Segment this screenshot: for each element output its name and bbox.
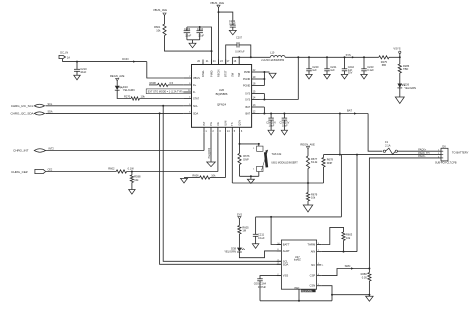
svg-text:2.1A: 2.1A: [385, 143, 391, 147]
wire thermistor bottom rail: [240, 175, 259, 177]
pin BATT gauge left: [277, 244, 282, 246]
svg-text:10uF: 10uF: [269, 125, 275, 128]
svg-text:YEL/GRN: YEL/GRN: [224, 250, 236, 254]
svg-text:10uF: 10uF: [198, 33, 204, 37]
svg-text:0.05: 0.05: [362, 275, 368, 279]
pin SYS right stub: [252, 93, 260, 95]
svg-text:SCL: SCL: [193, 105, 198, 108]
pin TS bottom stub: [231, 127, 233, 132]
net PG arrow: [210, 132, 212, 162]
pin DSEL top stub: [202, 60, 204, 65]
svg-text:TO BATTERY: TO BATTERY: [452, 151, 469, 155]
svg-text:0.1uF: 0.1uF: [367, 68, 374, 72]
svg-text:PMID: PMID: [244, 71, 250, 74]
svg-text:VSYS: VSYS: [393, 47, 400, 51]
pin CSN gauge right: [317, 285, 322, 287]
svg-text:SYS: SYS: [245, 99, 250, 102]
svg-text:QON: QON: [237, 120, 241, 126]
svg-text:CE: CE: [216, 122, 220, 126]
pin NC gauge right: [317, 264, 322, 266]
pin PMID top stub: [211, 60, 213, 65]
annotation box EXT OTG MODE: [146, 89, 191, 94]
wire PMID PGND tie: [260, 71, 265, 73]
pin SDA left stub: [183, 112, 191, 114]
resistor R280 sense: [368, 269, 370, 273]
wire AIN: [321, 251, 357, 253]
pin CE bottom stub: [217, 127, 219, 132]
wire CSN: [321, 286, 369, 295]
svg-text:J26: J26: [442, 144, 447, 148]
ground for C203 C204: [192, 40, 194, 43]
resistor R676 DNP: [239, 144, 241, 154]
wire CE pin drop: [217, 132, 219, 171]
pin PG bottom stub: [210, 127, 212, 132]
wire SW rail to inductor: [231, 57, 233, 59]
capacitor C164 on VSS: [260, 276, 281, 279]
pin ALRT gauge left: [277, 250, 282, 252]
node thermistor gnd junction: [250, 175, 252, 177]
wire VSS PAD rail: [260, 300, 332, 302]
fuse F1: [383, 150, 385, 152]
pin THRM gauge right: [317, 244, 322, 246]
jumper J602 bottom: [257, 166, 263, 171]
svg-text:DSEL: DSEL: [201, 70, 205, 77]
resistor R677: [307, 149, 309, 156]
ground for C211: [252, 244, 259, 249]
pin SYS right stub: [252, 99, 260, 101]
jumper J601 top: [258, 144, 260, 146]
node TS divider junction: [307, 182, 309, 184]
wire SYS rail: [285, 56, 379, 58]
svg-text:ALRT: ALRT: [283, 249, 290, 253]
svg-text:SDA: SDA: [283, 262, 289, 266]
svg-text:bq40Z: bq40Z: [294, 259, 301, 262]
ground for R598: [129, 190, 136, 195]
svg-text:VBUS_AVE: VBUS_AVE: [153, 8, 167, 12]
svg-text:PMID: PMID: [209, 70, 213, 77]
svg-text:1uF: 1uF: [312, 68, 317, 72]
node C204 junction: [199, 26, 201, 28]
svg-text:THRM: THRM: [307, 243, 316, 247]
pin QON bottom stub: [239, 127, 241, 132]
resistor R608 on D+: [149, 84, 158, 86]
svg-text:DCIN: DCIN: [122, 58, 128, 61]
pin REGN top stub: [218, 60, 220, 65]
svg-text:680: 680: [382, 63, 387, 67]
wire pack minus: [369, 158, 441, 269]
svg-text:INT: INT: [202, 121, 206, 126]
svg-text:10k: 10k: [134, 178, 139, 182]
resistor R270 STAT: [117, 90, 131, 98]
wire INT pin drop: [203, 132, 205, 150]
svg-text:BQ27Z561: BQ27Z561: [301, 291, 313, 293]
wire VBUS_AVE down to pin: [218, 7, 220, 64]
svg-text:BTST: BTST: [224, 70, 228, 77]
svg-text:R606: R606: [192, 173, 199, 177]
ground for R606: [181, 178, 188, 183]
svg-text:10uF: 10uF: [80, 70, 86, 74]
charger IC U26 body: [192, 65, 252, 128]
resistor R605: [238, 219, 240, 226]
svg-text:0.5: 0.5: [170, 81, 174, 85]
capacitor C210: [76, 62, 78, 70]
pin PGND right stub: [252, 85, 260, 87]
svg-text:10k: 10k: [156, 28, 161, 32]
svg-text:CHRG_I2C_SCL: CHRG_I2C_SCL: [11, 104, 34, 108]
wire SYS pins join: [260, 93, 265, 95]
capacitor C204: [199, 27, 201, 31]
ground arrow for R679: [303, 205, 313, 212]
svg-text:35V: 35V: [348, 71, 353, 75]
svg-text:C207: C207: [236, 36, 243, 39]
wire CSP to SRN: [321, 269, 369, 276]
pin CSP gauge right: [317, 275, 322, 277]
gauge part bar: [301, 290, 316, 293]
svg-text:BAT: BAT: [246, 113, 251, 116]
svg-text:STAT: STAT: [193, 98, 199, 101]
pin PGND right stub: [252, 78, 260, 80]
LED D10: [116, 81, 118, 86]
battery connector J26: [441, 148, 448, 161]
wire SCL: [46, 105, 184, 107]
LED D26: [399, 73, 401, 84]
wire INT: [46, 150, 205, 152]
ground for C202: [229, 30, 236, 34]
wire SCL to gauge: [163, 106, 281, 261]
svg-text:QFN24: QFN24: [217, 103, 226, 107]
pin BAT right stub: [252, 106, 260, 108]
wire SDA: [46, 112, 184, 114]
svg-text:AIN: AIN: [311, 250, 316, 254]
ground for thermistor: [250, 176, 252, 179]
capacitor C58: [270, 113, 272, 115]
svg-text:10k: 10k: [346, 236, 351, 240]
svg-text:PG(QON): PG(QON): [208, 148, 211, 159]
svg-text:CHRG_I2C_SDA: CHRG_I2C_SDA: [10, 112, 33, 116]
svg-text:SYS: SYS: [245, 93, 250, 96]
svg-text:C203: C203: [184, 27, 191, 31]
wire TS rail: [231, 132, 233, 183]
pin VBUS left stub: [183, 77, 191, 79]
wire pack-mid drop to BATT rail: [340, 155, 342, 217]
svg-text:U601 MODULE/INSERT: U601 MODULE/INSERT: [271, 161, 298, 164]
capacitor C211: [255, 217, 257, 234]
svg-text:CSP: CSP: [310, 274, 316, 278]
svg-text:1A: 1A: [67, 55, 70, 59]
wire BATT rail: [256, 216, 342, 218]
svg-text:SYS: SYS: [346, 53, 351, 57]
node CSN gnd junction: [368, 294, 370, 296]
wire R601 to REGN pin: [165, 36, 212, 52]
wire THRM to R603: [321, 227, 343, 244]
svg-text:D-: D-: [193, 91, 196, 94]
svg-text:R602: R602: [108, 167, 115, 171]
svg-text:REGN_AVE: REGN_AVE: [300, 142, 315, 146]
wire PAD drop: [298, 289, 300, 301]
svg-text:VBUS_AVE: VBUS_AVE: [210, 1, 224, 5]
svg-text:0.1W: 0.1W: [128, 167, 135, 171]
pin D+ left stub: [183, 84, 191, 86]
resistor R275: [379, 56, 389, 59]
node VBUS_AVE junction: [218, 11, 220, 13]
svg-text:DNP: DNP: [327, 161, 333, 165]
ground for sense: [368, 295, 370, 297]
svg-text:L10: L10: [270, 51, 275, 54]
svg-text:BQ25886: BQ25886: [216, 92, 228, 96]
svg-text:SRN: SRN: [345, 264, 351, 268]
svg-text:10uF: 10uF: [185, 33, 191, 37]
svg-text:PGND: PGND: [243, 85, 250, 88]
wire cap bottoms join: [187, 39, 200, 41]
svg-text:VSS: VSS: [283, 274, 289, 278]
svg-text:10uF: 10uF: [282, 125, 288, 128]
svg-text:YEL/GRN: YEL/GRN: [123, 88, 135, 92]
svg-text:BATT: BATT: [283, 243, 290, 247]
svg-text:PGND: PGND: [243, 78, 250, 81]
wire SYS riser: [297, 57, 299, 99]
pin PMID right stub: [252, 71, 260, 73]
node SRN junction: [368, 268, 370, 270]
wire QON/TS pin to thermistor: [239, 132, 241, 144]
pin STAT left stub: [183, 98, 191, 100]
svg-text:SDA: SDA: [193, 112, 198, 115]
svg-text:CHRG_INT: CHRG_INT: [13, 149, 29, 153]
pin AIN gauge right: [317, 251, 322, 253]
svg-text:0.047uF: 0.047uF: [235, 50, 245, 53]
resistor R603: [342, 232, 345, 241]
wire BATT pin drop: [271, 217, 281, 245]
svg-text:SUB-PCA-CLT,CPB: SUB-PCA-CLT,CPB: [435, 162, 457, 165]
wire to C202: [219, 12, 233, 25]
pin SCL gauge left: [277, 260, 282, 262]
pin VSS gauge left: [277, 275, 282, 277]
pin D- left stub: [183, 91, 191, 93]
svg-text:0.47uF: 0.47uF: [258, 285, 266, 289]
node thermistor top junction: [239, 143, 241, 145]
capacitor C240: [308, 56, 310, 58]
svg-text:C204: C204: [197, 27, 204, 31]
svg-text:SYS: SYS: [237, 212, 243, 216]
svg-text:1uF: 1uF: [330, 68, 335, 72]
pin SDA gauge left: [277, 263, 282, 265]
resistor R286: [399, 57, 401, 64]
svg-text:ILIM: ILIM: [223, 121, 227, 126]
capacitor C241: [326, 56, 328, 58]
svg-text:PG: PG: [209, 122, 213, 126]
svg-text:TS: TS: [230, 122, 234, 126]
capacitor C59: [283, 113, 285, 115]
node DCIN junction: [76, 61, 78, 63]
node AIN junction: [343, 251, 345, 253]
wire BAT rail: [260, 113, 369, 115]
wire BAT to fuse: [368, 114, 382, 152]
svg-text:0.1uF: 0.1uF: [229, 22, 236, 26]
svg-text:VBUS: VBUS: [193, 77, 200, 80]
svg-text:DC_IN: DC_IN: [60, 51, 68, 55]
pin BTST top stub: [225, 60, 227, 65]
pin BAT right stub: [252, 113, 260, 115]
gauge IC U27 body: [281, 240, 316, 289]
pin SCL left stub: [183, 105, 191, 107]
svg-text:CHRG_CE#: CHRG_CE#: [11, 170, 28, 174]
resistor R606 ILIM: [225, 132, 227, 177]
svg-text:10k: 10k: [211, 173, 216, 177]
node BAT to pack-mid: [339, 113, 341, 115]
ground for PGND: [264, 71, 269, 73]
node SDA branch: [159, 112, 161, 114]
svg-text:PACK-: PACK-: [418, 155, 425, 158]
svg-text:REGN_AVE: REGN_AVE: [110, 74, 125, 78]
svg-text:SW: SW: [230, 72, 234, 77]
svg-text:BAT: BAT: [347, 109, 352, 113]
thermistor TH6 body: [262, 150, 268, 171]
svg-text:D+: D+: [193, 84, 197, 87]
svg-text:CSN: CSN: [310, 284, 316, 288]
wire DCIN to VBUS pin: [147, 62, 184, 78]
capacitor C202: [230, 24, 236, 26]
pin ILIM bottom stub: [225, 127, 227, 132]
ground for C210: [74, 75, 81, 80]
svg-text:TH6 10k: TH6 10k: [272, 152, 283, 156]
wire D38 to ALRT: [239, 251, 281, 258]
capacitor C243: [363, 56, 365, 58]
capacitor C242: [344, 56, 346, 58]
pin INT bottom stub: [203, 127, 205, 132]
resistor R602: [46, 171, 117, 173]
resistor R678 DNP: [323, 155, 325, 158]
svg-text:R601: R601: [154, 25, 161, 29]
pin SW top stub: [231, 60, 233, 65]
svg-text:2.2uH/2.4A/50MOHM: 2.2uH/2.4A/50MOHM: [261, 59, 284, 62]
svg-text:REGN: REGN: [216, 69, 220, 77]
wire REGN rail: [187, 27, 212, 65]
wire BAT pins join: [260, 106, 265, 108]
svg-text:DNP: DNP: [243, 157, 249, 161]
svg-text:NC: NC: [311, 263, 315, 267]
wire AIN riser: [356, 155, 358, 252]
svg-text:BAT: BAT: [246, 106, 251, 109]
svg-text:EXT OTG MODE = 1 (1.2A TYP): EXT OTG MODE = 1 (1.2A TYP): [148, 91, 183, 94]
svg-text:0.1uF: 0.1uF: [258, 236, 265, 240]
svg-text:R608: R608: [150, 81, 157, 85]
node CE junction: [131, 171, 133, 173]
LED D38: [238, 234, 240, 248]
capacitor C203: [186, 27, 188, 31]
svg-text:SW: SW: [237, 72, 241, 77]
svg-text:YEL/GRN: YEL/GRN: [404, 86, 416, 90]
node R601 junction: [211, 50, 213, 52]
node SCL branch: [162, 105, 164, 107]
pin SW top stub: [238, 60, 240, 65]
svg-text:63.4k: 63.4k: [311, 160, 318, 164]
ground for D26: [399, 88, 401, 97]
svg-text:R270: R270: [124, 95, 131, 99]
resistor R679: [307, 183, 309, 193]
svg-text:10k: 10k: [141, 95, 146, 99]
resistor R598 pulldown: [131, 172, 133, 176]
wire SDA to gauge: [160, 113, 282, 264]
svg-text:1M: 1M: [242, 229, 246, 233]
wire pack mid rail: [324, 154, 442, 156]
resistor R601 pullup: [164, 15, 166, 24]
svg-text:TBD: TBD: [403, 67, 408, 71]
svg-text:10k: 10k: [311, 196, 316, 200]
wire DCIN rail: [63, 61, 147, 63]
